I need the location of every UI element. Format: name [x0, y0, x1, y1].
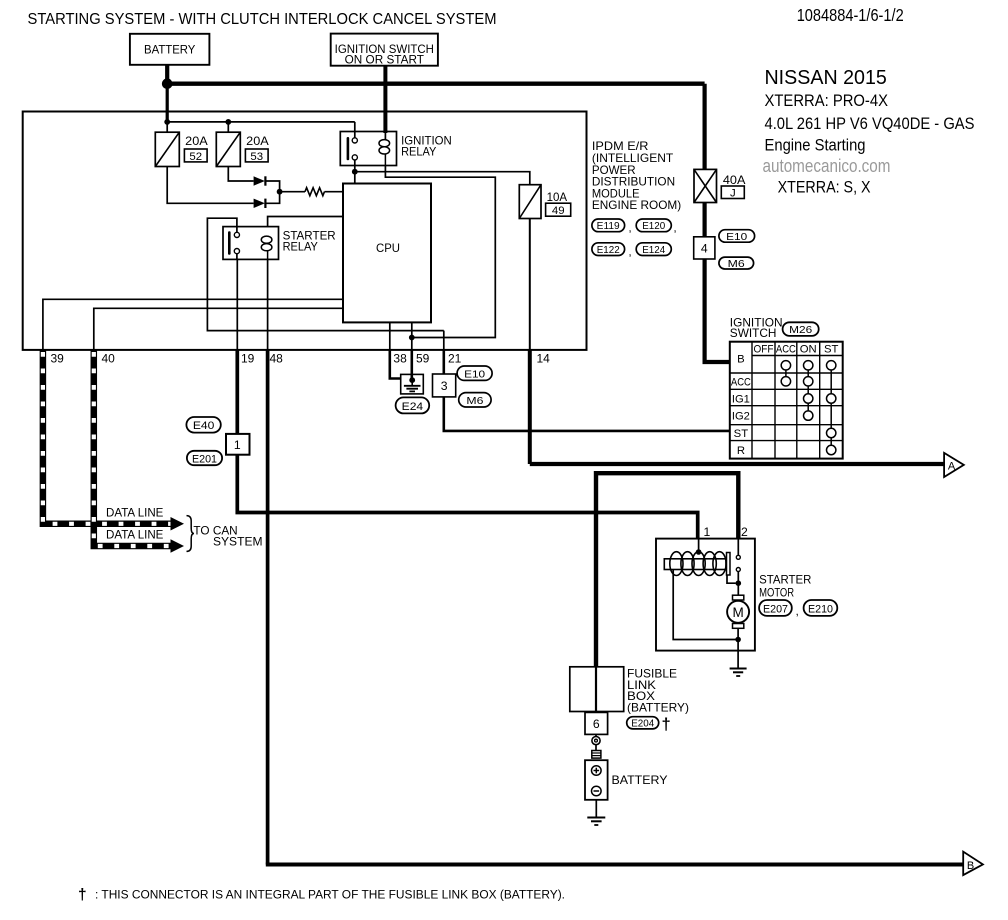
wire fuse 53 feed	[227, 122, 229, 132]
IGNITION SWITCH ON OR START box	[331, 34, 438, 67]
ground symbol E24	[404, 380, 421, 391]
IPDM E/R box	[23, 112, 587, 350]
fuse 53 (20A)	[216, 132, 240, 166]
label FUSIBLE LINK BOX (BATTERY)	[627, 667, 689, 715]
starter relay switch bar	[228, 231, 231, 255]
svg-text:R: R	[737, 445, 745, 457]
ignition relay contact top	[352, 138, 357, 143]
svg-text:RELAY: RELAY	[401, 146, 436, 159]
svg-text:,: ,	[796, 604, 799, 618]
wire pin 2 inside	[737, 539, 739, 556]
connector 1 box	[226, 434, 250, 455]
node motor top junction	[736, 580, 742, 586]
battery plus	[592, 766, 602, 776]
diode upper	[254, 176, 266, 185]
wire CPU pin 38	[389, 322, 391, 350]
wire pin 21 to 3 box	[442, 350, 445, 374]
connector E120	[636, 219, 671, 232]
wire 3 box to ST row	[444, 397, 730, 431]
svg-text:1: 1	[234, 438, 241, 452]
motor M	[727, 583, 749, 639]
svg-text:ACC: ACC	[731, 376, 751, 388]
connector E10 (4)	[719, 230, 755, 243]
label 53 box	[245, 149, 268, 163]
svg-text:XTERRA: PRO-4X: XTERRA: PRO-4X	[765, 91, 889, 110]
wire battery drop	[165, 65, 169, 84]
connector E40	[186, 417, 220, 433]
ground battery	[587, 818, 605, 826]
wire contact to motor junction	[727, 572, 738, 584]
ground starter motor	[730, 669, 747, 677]
wire pin 48 down	[266, 350, 270, 865]
arrow data line 40	[171, 539, 185, 553]
svg-text:3: 3	[441, 379, 448, 393]
svg-text:10A: 10A	[547, 190, 568, 204]
svg-text:BATTERY: BATTERY	[612, 774, 668, 787]
starter relay box	[223, 227, 279, 260]
svg-text:53: 53	[250, 151, 263, 163]
table contact links	[786, 370, 831, 445]
svg-text:ST: ST	[824, 344, 839, 356]
svg-text:M: M	[732, 605, 743, 620]
wire ST signal loop to relay switch	[207, 218, 443, 330]
wire data line 40 (dashed)	[94, 350, 172, 546]
connector M6 (4)	[719, 257, 754, 270]
svg-text:NISSAN 2015: NISSAN 2015	[765, 66, 887, 89]
ignition relay coil	[379, 140, 390, 166]
svg-text:DATA LINE: DATA LINE	[106, 528, 163, 542]
wire fuse 49 to pin 14	[529, 219, 531, 350]
wire fusible link to starter pin 2	[596, 473, 738, 667]
svg-text:59: 59	[416, 352, 430, 366]
arrow B	[963, 852, 983, 876]
fuse 49 (10A)	[519, 185, 541, 219]
svg-text:RELAY: RELAY	[283, 241, 318, 254]
svg-text:automecanico.com: automecanico.com	[763, 156, 891, 176]
wire resistor to CPU	[324, 191, 343, 193]
ignition relay contact bottom	[352, 155, 357, 160]
svg-text:E24: E24	[402, 401, 424, 413]
connector M26	[783, 322, 819, 336]
battery terminal	[592, 751, 601, 759]
svg-text:39: 39	[51, 352, 65, 366]
table row labels	[731, 354, 751, 458]
wire 4 box to ignition switch table B	[705, 259, 730, 362]
arrow A	[944, 453, 964, 477]
wire solenoid return	[673, 570, 738, 640]
svg-text:E124: E124	[642, 245, 665, 256]
starter relay contact top	[234, 232, 239, 237]
svg-text:ON: ON	[800, 344, 817, 356]
svg-text:E122: E122	[597, 245, 620, 256]
svg-text:6: 6	[593, 717, 600, 731]
svg-text:20A: 20A	[246, 134, 269, 148]
svg-text:(BATTERY): (BATTERY)	[627, 701, 689, 715]
svg-text:E204: E204	[631, 719, 654, 730]
svg-text:Engine Starting: Engine Starting	[765, 136, 866, 155]
svg-text:,: ,	[629, 223, 632, 235]
connector E119	[592, 219, 625, 232]
wire CPU pin39 line	[43, 299, 343, 350]
svg-text:STARTING SYSTEM - WITH CLUTCH: STARTING SYSTEM - WITH CLUTCH INTERLOCK …	[28, 11, 497, 28]
svg-text:40A: 40A	[723, 173, 746, 187]
connector E204	[627, 717, 659, 730]
connector E10 (3)	[457, 366, 492, 380]
svg-text:19: 19	[241, 352, 255, 366]
svg-text:40: 40	[102, 352, 116, 366]
svg-text:ENGINE ROOM): ENGINE ROOM)	[592, 198, 681, 212]
IPDM label block	[592, 139, 681, 212]
node ground dot	[409, 377, 415, 383]
svg-text:A: A	[948, 460, 956, 472]
battery (bottom) box	[585, 760, 608, 800]
wire data line 39 (dashed)	[43, 350, 172, 524]
svg-text:†: †	[78, 887, 87, 904]
starter relay coil	[261, 236, 272, 259]
fusible link box	[570, 667, 624, 712]
wire pin 38 to ground	[390, 350, 401, 379]
svg-text:J: J	[730, 188, 736, 200]
svg-text:1: 1	[704, 525, 711, 539]
svg-text:49: 49	[552, 205, 565, 217]
svg-text:: THIS CONNECTOR IS AN INTEGRA: : THIS CONNECTOR IS AN INTEGRAL PART OF …	[95, 888, 565, 902]
connector 6 box	[585, 712, 608, 734]
svg-text:14: 14	[537, 352, 551, 366]
wire ignition switch drop	[383, 66, 387, 133]
ignition switch table grid	[730, 342, 843, 459]
svg-text:E119: E119	[597, 221, 620, 232]
solenoid contact top	[736, 555, 740, 559]
connector 4 box	[694, 237, 715, 259]
svg-text:†: †	[662, 716, 671, 734]
wire 6 to terminal	[595, 734, 597, 750]
svg-text:IG2: IG2	[732, 411, 750, 423]
svg-text:4: 4	[701, 241, 708, 255]
node fuse 52 tap	[164, 119, 170, 125]
connector M6 (3)	[459, 393, 491, 407]
diode lower	[254, 199, 266, 208]
wire to resistor	[280, 191, 305, 193]
connector E24	[396, 397, 430, 413]
wire 40A fuse feed	[702, 84, 706, 170]
svg-text:B: B	[737, 354, 745, 366]
ignition relay box	[340, 132, 396, 166]
svg-text:ON OR START: ON OR START	[345, 53, 425, 67]
svg-text:E201: E201	[192, 453, 217, 465]
node solenoid coil tap	[696, 549, 702, 555]
svg-text:E40: E40	[193, 420, 215, 432]
table header OFF ACC ON ST	[754, 344, 839, 356]
svg-text:CPU: CPU	[376, 241, 400, 255]
svg-text:SWITCH: SWITCH	[730, 327, 777, 340]
arrow data line 39	[171, 517, 185, 531]
wire CPU pin 59	[411, 322, 413, 350]
connector 3 box	[433, 374, 456, 397]
svg-text:M6: M6	[466, 396, 483, 407]
svg-text:E210: E210	[808, 603, 833, 615]
svg-text:M6: M6	[728, 259, 745, 270]
svg-text:B: B	[967, 860, 974, 872]
svg-text:20A: 20A	[185, 134, 208, 148]
svg-text:38: 38	[393, 352, 407, 366]
wire pin 21 inside	[443, 331, 445, 350]
svg-text:MOTOR: MOTOR	[759, 587, 794, 600]
node CPU 59 junction	[409, 335, 415, 341]
node relay output junction	[352, 169, 358, 175]
brace to CAN	[187, 516, 195, 552]
svg-text:48: 48	[270, 352, 284, 366]
connector E124	[636, 243, 671, 256]
wire diode outputs join	[265, 181, 279, 203]
wire fuse52 to lower diode	[167, 167, 253, 204]
wire relay coil to pin 48	[267, 259, 269, 350]
svg-text:SYSTEM: SYSTEM	[213, 535, 263, 549]
label J box	[721, 186, 744, 200]
svg-text:,: ,	[629, 246, 632, 258]
ignition relay switch bar	[347, 137, 350, 160]
svg-text:XTERRA: S, X: XTERRA: S, X	[778, 178, 871, 197]
connector E201	[187, 451, 222, 466]
wire battery to ground	[595, 800, 597, 818]
battery minus	[592, 786, 602, 796]
wire relay switch output to CPU	[354, 160, 356, 184]
solenoid contact bottom	[736, 568, 740, 572]
svg-text:ST: ST	[734, 428, 749, 440]
svg-text:DATA LINE: DATA LINE	[106, 505, 163, 519]
svg-text:E207: E207	[763, 603, 788, 615]
connector ring	[592, 737, 600, 745]
svg-text:E10: E10	[726, 232, 747, 243]
wire 40A to 4 box	[702, 203, 706, 237]
svg-text:OFF: OFF	[754, 344, 774, 356]
wire relay switch input	[354, 122, 356, 138]
wire pin 1 inside	[698, 539, 700, 552]
wire pin 14 to A	[528, 350, 532, 464]
svg-text:E10: E10	[464, 369, 485, 380]
wire through fusible box	[595, 667, 597, 712]
fuse 40A J	[694, 169, 717, 202]
node motor bottom junction	[735, 637, 741, 643]
CPU box	[343, 184, 431, 323]
wire pin 59 to ground	[410, 350, 413, 380]
svg-text:IG1: IG1	[732, 394, 750, 406]
wire relay output to fuse 49	[355, 172, 530, 185]
svg-text:M26: M26	[789, 325, 812, 336]
connector E210	[804, 600, 838, 616]
node diode junction	[277, 189, 283, 195]
solenoid coil loops	[670, 552, 726, 576]
svg-text:,: ,	[674, 223, 677, 235]
ground E24 box	[401, 374, 424, 394]
node fuse 53 tap	[225, 119, 231, 125]
connector E122	[592, 243, 625, 256]
wire CPU pin40 line	[94, 308, 343, 350]
node battery junction	[162, 78, 173, 89]
solenoid core	[664, 559, 726, 570]
wire A line	[530, 462, 944, 466]
wire fuse feed bus	[167, 121, 355, 123]
wire B line	[266, 863, 963, 867]
svg-text:E120: E120	[642, 221, 665, 232]
connector E207	[759, 600, 792, 616]
svg-text:ACC: ACC	[776, 344, 796, 356]
svg-text:1084884-1/6-1/2: 1084884-1/6-1/2	[797, 5, 904, 25]
svg-text:21: 21	[448, 352, 462, 366]
svg-text:4.0L 261 HP V6 VQ40DE - GAS: 4.0L 261 HP V6 VQ40DE - GAS	[765, 114, 975, 133]
svg-text:STARTER: STARTER	[759, 574, 811, 587]
svg-text:52: 52	[189, 151, 202, 163]
label 52 box	[184, 149, 207, 163]
wire relay switch to pin 19	[236, 254, 238, 350]
resistor	[305, 188, 324, 196]
starter relay contact bottom	[234, 249, 239, 254]
BATTERY box	[130, 34, 210, 65]
label 49 box	[546, 203, 571, 217]
svg-text:BATTERY: BATTERY	[144, 44, 195, 57]
wire motor to ground	[737, 640, 739, 669]
wire relay coil to CPU 59 net	[385, 166, 495, 338]
table circles	[781, 361, 836, 455]
solenoid plunger plate	[727, 553, 731, 576]
wire fuse53 to upper diode	[228, 167, 253, 182]
fuse 52 (20A)	[155, 132, 179, 166]
svg-text:2: 2	[741, 525, 748, 539]
wire main battery bus	[167, 81, 704, 85]
wire pin 19 to starter motor pin 1	[237, 350, 697, 539]
wire starter relay coil to CPU	[268, 217, 343, 227]
starter motor box	[656, 539, 755, 651]
